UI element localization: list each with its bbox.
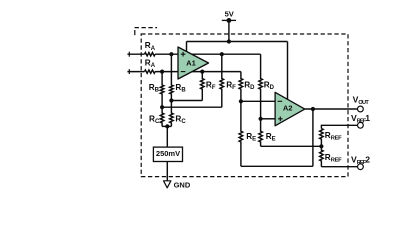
wire: input 2 continues to RD1 corner — [155, 71, 241, 73]
wire: A2 inverting input — [241, 100, 275, 102]
wire: line B (RF right bottom to RB left junction) — [162, 106, 222, 108]
svg-text:RREF: RREF — [325, 131, 342, 142]
svg-text:RC: RC — [149, 114, 160, 125]
wire: bottom feedback rail — [241, 165, 313, 167]
node: line A junction on RB right column — [169, 98, 173, 102]
wire: input 2 (to A1 -) — [127, 71, 144, 73]
svg-text:RA: RA — [145, 41, 156, 52]
svg-text:VREF1: VREF1 — [351, 113, 370, 124]
A2 power stub wire — [287, 42, 289, 100]
terminal VREF2 — [358, 164, 364, 170]
svg-text:RD: RD — [264, 81, 275, 92]
svg-text:A2: A2 — [283, 104, 293, 113]
svg-text:RREF: RREF — [325, 153, 342, 164]
node: line B junction on RB left column — [160, 105, 164, 109]
5V supply dot — [227, 18, 232, 23]
wire: line A (RF left bottom to RB right junction) — [171, 100, 202, 102]
node: RD left / RE left / A2- junction — [239, 99, 243, 103]
voltage reference 250mV box — [153, 147, 182, 161]
svg-text:VOUT: VOUT — [353, 95, 370, 106]
svg-text:5V: 5V — [225, 10, 234, 19]
svg-text:GND: GND — [174, 181, 191, 190]
5V feed wire — [228, 20, 230, 41]
outer border tick on wire 2 — [128, 69, 130, 74]
svg-text:250mV: 250mV — [156, 149, 180, 158]
resistor RD (left) — [239, 72, 243, 102]
svg-text:RE: RE — [266, 132, 276, 143]
svg-text:A1: A1 — [186, 58, 196, 67]
wire: A2 non-inverting input — [261, 118, 276, 120]
terminal VOUT — [358, 106, 364, 112]
resistor RA (bottom) — [145, 70, 156, 73]
op-amp A1 — [178, 47, 209, 79]
svg-text:RD: RD — [244, 81, 255, 92]
svg-text:RC: RC — [175, 114, 186, 125]
5V supply bar — [222, 19, 236, 21]
outer enclosure corner (cropped) — [135, 27, 157, 29]
wire: RE right to RREF midpoint — [261, 145, 322, 147]
terminal VREF1 — [358, 122, 364, 128]
ground symbol — [164, 181, 171, 188]
resistor RREF (top) — [320, 129, 324, 147]
outer border tick on wire 1 — [128, 52, 130, 57]
node: RREF midpoint junction — [319, 144, 323, 148]
A1 plus input marker — [181, 52, 186, 57]
node: RD right / RE right / A2+ junction — [259, 117, 263, 121]
svg-text:RB: RB — [175, 83, 186, 94]
wire: feedback drop to bottom rail — [312, 109, 314, 166]
op-amp A2 — [275, 92, 305, 126]
node: 5V rail junction — [227, 39, 231, 43]
resistor RREF (bottom) — [320, 146, 324, 166]
dashed enclosure border — [141, 34, 348, 177]
node: RC merge junction — [165, 124, 169, 128]
node: output feedback junction — [311, 107, 315, 111]
A2 plus input marker — [278, 117, 283, 122]
A1 power stub wire — [186, 42, 188, 52]
resistor RF (right) — [220, 54, 224, 107]
resistor RF (left) — [201, 72, 205, 101]
wire: input 1 (to A1 +) — [127, 53, 144, 55]
wire: RC merge tee — [162, 125, 171, 127]
wire: input 1 continues to RD2 corner — [155, 53, 261, 55]
node: wire2-RF left junction — [200, 70, 204, 74]
wire: VREF1 line — [321, 125, 357, 128]
wire: A2 output to VOUT — [305, 108, 358, 110]
svg-text:VREF2: VREF2 — [351, 155, 370, 166]
5V rail wire — [187, 41, 288, 43]
resistor RC (left) — [160, 107, 164, 126]
resistor RD (right) — [259, 54, 263, 119]
wire: box to ground — [166, 162, 168, 181]
resistor RC (right) — [170, 101, 174, 127]
resistor RB (right, on input 1) — [170, 54, 174, 100]
node: wire2-RB left junction — [160, 70, 164, 74]
svg-text:RE: RE — [246, 132, 256, 143]
svg-text:RF: RF — [206, 81, 216, 92]
wire: VREF2 line — [321, 166, 357, 168]
A1 minus input marker — [181, 71, 186, 73]
resistor RB (left, on input 2) — [160, 72, 164, 108]
resistor RE (right) — [259, 119, 263, 147]
svg-text:RF: RF — [226, 81, 236, 92]
resistor RE (left) — [239, 101, 243, 166]
wire: merge to 250mV box — [166, 126, 168, 147]
A2 minus input marker — [278, 100, 283, 102]
svg-text:RB: RB — [149, 83, 160, 94]
node: wire1-RF right junction — [220, 52, 224, 56]
resistor RA (top) — [145, 53, 156, 56]
svg-text:RA: RA — [145, 59, 156, 70]
node: wire1-RB right junction — [169, 52, 173, 56]
